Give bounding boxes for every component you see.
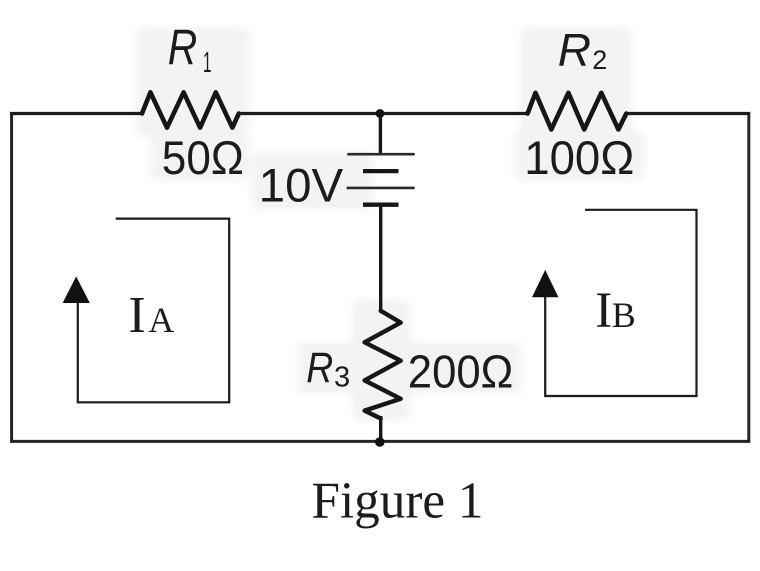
wire: outer loop (left side, bottom side, right side) bbox=[12, 112, 749, 441]
battery V1 plate 1 (long) bbox=[347, 153, 414, 156]
wire: battery top lead bbox=[379, 114, 382, 155]
loop current IB arrow (mesh loop path) bbox=[545, 210, 696, 396]
wire: top-middle segment bbox=[238, 112, 528, 115]
svg-text:I: I bbox=[595, 283, 612, 339]
battery V1 plate 3 (long) bbox=[347, 187, 415, 190]
svg-text:Figure 1: Figure 1 bbox=[312, 472, 484, 529]
battery V1 plate 4 (short) bbox=[363, 202, 399, 206]
loop current IA arrow (mesh loop path) bbox=[78, 219, 229, 403]
svg-text:I: I bbox=[128, 287, 145, 344]
battery V1 plate 2 (short) bbox=[363, 169, 399, 173]
svg-text:200Ω: 200Ω bbox=[408, 345, 514, 397]
svg-text:R: R bbox=[168, 20, 198, 76]
svg-text:50Ω: 50Ω bbox=[162, 131, 244, 184]
svg-text:A: A bbox=[148, 300, 174, 340]
wire: top-right segment bbox=[626, 112, 750, 115]
svg-text:10V: 10V bbox=[259, 159, 344, 212]
resistor R1 bbox=[142, 92, 239, 127]
resistor R2 bbox=[528, 93, 627, 130]
svg-text:B: B bbox=[612, 295, 636, 335]
svg-text:1: 1 bbox=[203, 47, 212, 79]
svg-text:R: R bbox=[558, 24, 591, 76]
wire: R3 bottom lead bbox=[379, 416, 382, 441]
wire: battery to R3 lead bbox=[379, 205, 382, 312]
resistor R3 bbox=[365, 311, 401, 419]
node: top junction bbox=[376, 109, 385, 118]
svg-text:100Ω: 100Ω bbox=[524, 131, 634, 184]
wire: top-left segment bbox=[10, 112, 143, 115]
svg-text:R: R bbox=[306, 344, 333, 392]
svg-text:3: 3 bbox=[334, 362, 350, 394]
node: bottom junction bbox=[375, 437, 385, 447]
svg-text:2: 2 bbox=[592, 45, 607, 75]
